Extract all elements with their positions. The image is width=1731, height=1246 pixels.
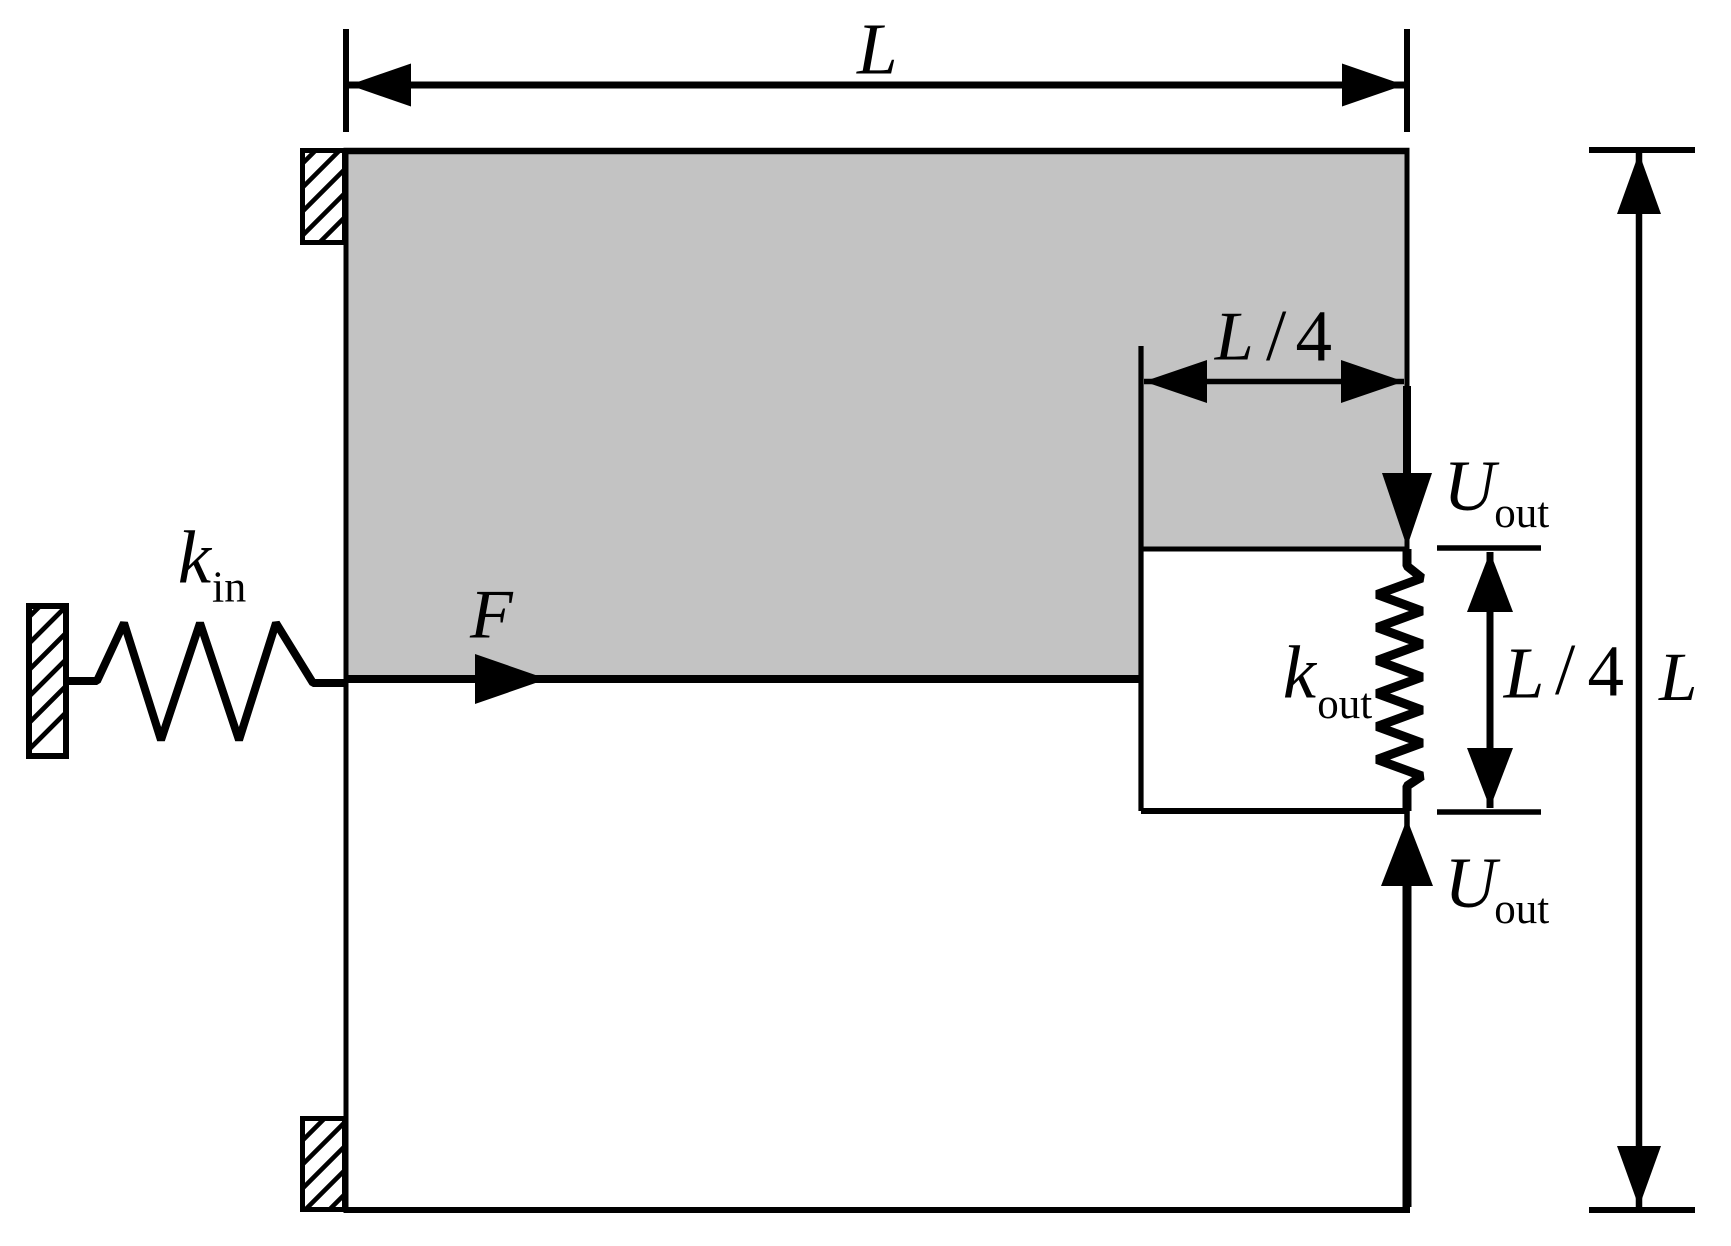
right dimension L: bottom arrowhead bbox=[1617, 1146, 1661, 1207]
L/4 vertical: line bbox=[1487, 552, 1494, 808]
support top-left hatched bbox=[221, 148, 414, 245]
svg-text:/: / bbox=[1266, 295, 1287, 376]
svg-text:k: k bbox=[1283, 632, 1318, 715]
gray design domain region bbox=[346, 151, 1407, 679]
domain bottom edge bbox=[344, 1207, 1411, 1213]
svg-text:4: 4 bbox=[1296, 296, 1333, 377]
svg-text:k: k bbox=[178, 517, 213, 600]
right dimension L: top tick bbox=[1589, 147, 1695, 153]
svg-text:out: out bbox=[1317, 681, 1372, 728]
domain left edge bbox=[344, 148, 349, 1213]
L/4 vertical: bottom arrowhead bbox=[1467, 748, 1513, 808]
right dimension L: line bbox=[1636, 153, 1643, 1207]
svg-text:out: out bbox=[1494, 490, 1549, 537]
svg-text:U: U bbox=[1445, 843, 1501, 923]
notch left edge and L/4 tick bbox=[1138, 346, 1143, 811]
support bottom-left hatched bbox=[231, 1116, 423, 1212]
force F line bbox=[346, 675, 1141, 683]
domain top edge bbox=[344, 148, 1410, 155]
top dimension L: left tick bbox=[343, 29, 349, 132]
svg-text:L: L bbox=[1503, 633, 1545, 714]
svg-text:L: L bbox=[1214, 299, 1254, 376]
L/4 vertical dimension: top tick bbox=[1437, 545, 1541, 551]
top dimension L: left arrowhead bbox=[349, 64, 411, 107]
L/4 horizontal: left arrowhead bbox=[1144, 360, 1207, 403]
notch bottom edge bbox=[1141, 808, 1409, 814]
U_out top arrow (down) bbox=[1382, 386, 1432, 547]
svg-text:in: in bbox=[212, 563, 246, 612]
svg-text:L: L bbox=[1658, 639, 1697, 715]
L/4 vertical: bottom tick bbox=[1437, 809, 1541, 815]
L/4 vertical: top arrowhead bbox=[1467, 552, 1513, 612]
right dimension L: bottom tick bbox=[1589, 1207, 1695, 1213]
notch top edge bbox=[1141, 547, 1407, 552]
svg-text:F: F bbox=[469, 577, 514, 654]
svg-text:4: 4 bbox=[1588, 631, 1625, 712]
L/4 horizontal: right arrowhead bbox=[1341, 360, 1404, 403]
L/4 horizontal dimension: line bbox=[1144, 379, 1404, 385]
domain right edge lower bbox=[1404, 811, 1410, 1210]
top dimension L: line bbox=[349, 82, 1404, 89]
domain right edge upper bbox=[1405, 151, 1410, 549]
force F arrowhead bbox=[475, 654, 547, 704]
spring k_out bbox=[1377, 549, 1422, 811]
svg-text:/: / bbox=[1555, 629, 1576, 710]
svg-text:out: out bbox=[1494, 886, 1549, 933]
svg-text:U: U bbox=[1444, 446, 1500, 526]
top dimension L: right arrowhead bbox=[1342, 64, 1404, 107]
svg-text:L: L bbox=[856, 9, 898, 90]
spring k_in bbox=[69, 623, 346, 740]
wall anchor of k_in hatched bbox=[0, 603, 176, 759]
U_out bottom arrow (up) bbox=[1381, 819, 1433, 1207]
top dimension L: right tick bbox=[1404, 29, 1410, 132]
right dimension L: top arrowhead bbox=[1617, 153, 1661, 214]
